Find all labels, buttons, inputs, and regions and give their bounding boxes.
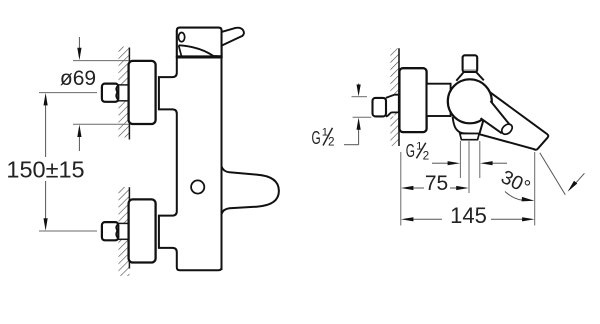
faucet body front outline bbox=[159, 58, 222, 271]
bottom supply pipe connector bbox=[118, 223, 129, 239]
top hub ring line bbox=[158, 77, 160, 109]
knob neck shade bbox=[464, 69, 476, 71]
dim G1/2 top arrow bbox=[357, 84, 361, 97]
dim G1/2 bottom arrow with leader bbox=[344, 118, 361, 145]
handle skirt front edge bbox=[179, 45, 182, 57]
extension line escutcheon top (o69) bbox=[73, 60, 129, 62]
lever end ellipse bbox=[500, 122, 514, 136]
extension line outlet left bbox=[459, 141, 461, 178]
body right edge over spout joint bbox=[221, 58, 223, 271]
dim o69 lower arrow bbox=[77, 125, 81, 152]
pin hole on head bbox=[179, 33, 185, 42]
svg-text:G: G bbox=[406, 140, 415, 161]
bottom supply pipe nut bbox=[102, 222, 118, 240]
extension line top pipe center (150 dim) bbox=[39, 92, 97, 94]
top escutcheon front bbox=[129, 61, 156, 124]
label G1/2 bottom bbox=[406, 140, 429, 163]
knob stem flare right bbox=[476, 72, 484, 80]
dim 145 bbox=[401, 217, 535, 221]
lever side fill bbox=[481, 101, 511, 133]
wall line left view upper bbox=[128, 48, 130, 140]
dim 75 bbox=[401, 186, 469, 190]
wall hatch left view lower bbox=[119, 187, 130, 276]
label G1/2 left bbox=[312, 127, 335, 149]
bottom hub ring line bbox=[158, 216, 160, 248]
head bottom thick band bbox=[176, 55, 222, 58]
cartridge head front bbox=[177, 28, 222, 57]
top nut profile squiggle bbox=[116, 86, 118, 100]
screw hole on body bbox=[191, 180, 204, 193]
top supply pipe connector bbox=[118, 85, 129, 101]
lever side lower edge bbox=[481, 118, 502, 133]
extension line spout tip bbox=[534, 152, 536, 226]
extension line pipe bottom (G1/2) bbox=[353, 116, 372, 118]
knob top side bbox=[463, 55, 478, 72]
30 deg outer arrow bbox=[568, 173, 585, 191]
handle lever front bbox=[222, 28, 244, 46]
lever side upper edge bbox=[491, 101, 511, 126]
svg-text:150±15: 150±15 bbox=[6, 157, 84, 183]
extension line pipe top (G1/2) bbox=[352, 96, 368, 98]
wall line right view bbox=[398, 48, 400, 146]
extension line escutcheon bottom (o69) bbox=[73, 123, 129, 125]
wall hatch left view upper bbox=[119, 47, 130, 138]
extension line outlet center bbox=[468, 141, 470, 193]
handle skirt curve inside head bbox=[179, 45, 222, 56]
extension line bottom pipe center (150 dim) bbox=[39, 230, 97, 232]
svg-text:145: 145 bbox=[450, 203, 487, 228]
dim G1/2 bottom: left arrow bbox=[432, 161, 460, 165]
bottom escutcheon front bbox=[129, 199, 156, 262]
bottom housing side bbox=[453, 117, 480, 134]
svg-text:75: 75 bbox=[425, 172, 448, 195]
spout bump front bbox=[222, 167, 279, 215]
svg-text:2: 2 bbox=[423, 149, 430, 163]
extension line wall bottom bbox=[400, 152, 402, 226]
dim o69 upper arrow bbox=[77, 37, 81, 60]
wall line left view lower bbox=[128, 187, 130, 268]
spout side bbox=[479, 93, 548, 150]
dim 150+-15 line lower bbox=[44, 181, 48, 231]
30 deg reference line bbox=[540, 153, 566, 195]
svg-text:ø69: ø69 bbox=[60, 67, 96, 90]
bottom nut profile squiggle bbox=[116, 224, 118, 238]
dim 150+-15 line upper bbox=[44, 93, 48, 157]
svg-text:2: 2 bbox=[328, 135, 335, 149]
valve body circle bbox=[448, 79, 492, 123]
outlet trapezoid bbox=[460, 134, 479, 140]
escutcheon side bbox=[399, 68, 426, 132]
30 deg arc arrow bbox=[505, 192, 534, 202]
extension line outlet right bbox=[479, 141, 481, 178]
svg-text:G: G bbox=[312, 127, 321, 148]
knob stem flare left bbox=[456, 72, 463, 81]
side supply pipe bbox=[373, 95, 399, 117]
wall hatch right view bbox=[390, 48, 399, 146]
top supply pipe nut bbox=[102, 84, 118, 102]
dim G1/2 bottom: right arrow bbox=[480, 161, 507, 165]
neck cylinder side bbox=[427, 84, 451, 116]
